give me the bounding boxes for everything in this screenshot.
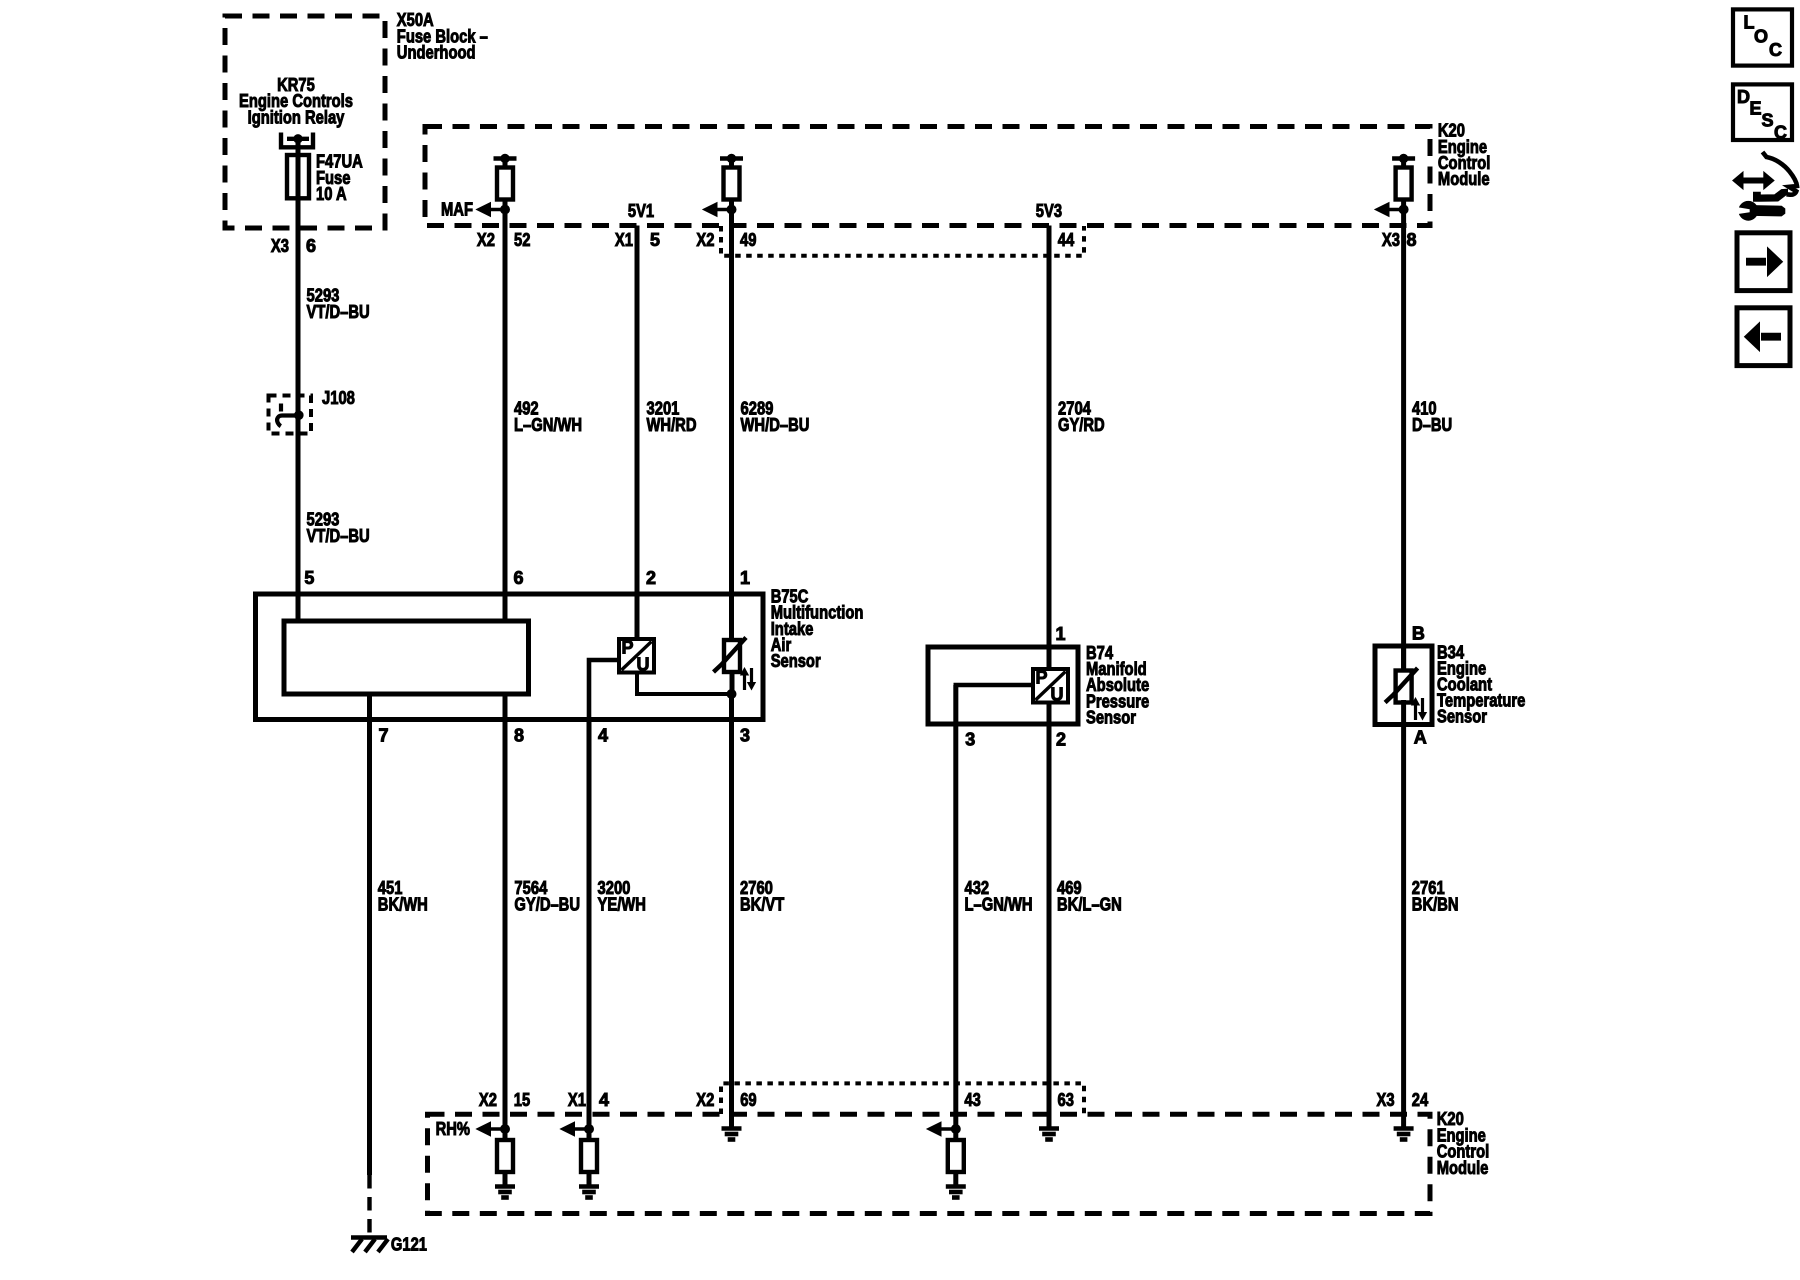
pin label 43 bbox=[964, 1090, 980, 1110]
label wire 492 L-GN/WH bbox=[514, 399, 582, 435]
wire 2761 BK/BN (B34 pin A to pin24) bbox=[1401, 725, 1406, 1127]
pin number 4 (B75C) bbox=[598, 725, 608, 745]
label B75C Multifunction Intake Air Sensor bbox=[771, 587, 864, 671]
svg-text:S: S bbox=[1762, 111, 1774, 131]
svg-text:U: U bbox=[1051, 685, 1064, 705]
svg-text:BK/WH: BK/WH bbox=[378, 894, 428, 914]
svg-text:J108: J108 bbox=[322, 388, 355, 408]
label wire 432 L-GN/WH bbox=[965, 878, 1033, 915]
svg-text:WH/D–BU: WH/D–BU bbox=[741, 415, 810, 435]
pin number 2 (B74) bbox=[1056, 729, 1066, 749]
svg-text:4: 4 bbox=[599, 1090, 609, 1110]
label wire 469 BK/L-GN bbox=[1057, 878, 1122, 915]
wire P/U bottom to pin3 node (B75C) bbox=[637, 673, 732, 695]
thermistor symbol (B75C) bbox=[714, 638, 747, 673]
label wire 2760 BK/VT bbox=[740, 878, 784, 915]
svg-text:D–BU: D–BU bbox=[1412, 415, 1452, 435]
svg-text:44: 44 bbox=[1058, 230, 1074, 250]
svg-text:1: 1 bbox=[740, 568, 750, 588]
ground symbol (pin4 channel) bbox=[579, 1187, 599, 1198]
pin number 8 (B75C) bbox=[514, 725, 524, 745]
label B34 Engine Coolant Temperature Sensor bbox=[1437, 642, 1525, 726]
wire 451 BK/WH (B75C pin7 to G121) bbox=[367, 694, 372, 1175]
resistor pin4 load bbox=[581, 1140, 597, 1172]
sensor B75C outer box bbox=[256, 594, 764, 720]
svg-text:5V1: 5V1 bbox=[628, 201, 654, 221]
icon tool wrench bbox=[1736, 201, 1785, 220]
ECM K20 bottom (dashed box) bbox=[428, 1114, 1431, 1213]
transducer P/U symbol (B75C) bbox=[619, 638, 654, 675]
svg-text:B: B bbox=[1412, 624, 1425, 644]
svg-text:5V3: 5V3 bbox=[1036, 201, 1062, 221]
wire T-bar to resistor (MAF) bbox=[503, 159, 508, 169]
junction dot IAT bbox=[727, 205, 736, 214]
svg-text:X2: X2 bbox=[479, 1090, 497, 1110]
svg-text:8: 8 bbox=[514, 725, 524, 745]
svg-text:2: 2 bbox=[646, 568, 656, 588]
svg-text:U: U bbox=[637, 655, 650, 675]
svg-text:L–GN/WH: L–GN/WH bbox=[965, 894, 1033, 914]
junction dot J108 bbox=[295, 411, 304, 420]
svg-text:A: A bbox=[1414, 728, 1427, 748]
net 5V1 label bbox=[628, 201, 654, 221]
pin label X2 49 bbox=[696, 230, 756, 250]
wire resistor to ground (RH%) bbox=[503, 1172, 508, 1187]
icon box LOC bbox=[1733, 9, 1792, 65]
wire T-bar to resistor (IAT) bbox=[729, 159, 734, 169]
arrow RH% signal bbox=[477, 1122, 506, 1136]
wire 5293 fuse block to B75C pin 5 bbox=[296, 198, 301, 621]
svg-text:3: 3 bbox=[740, 725, 750, 745]
svg-text:69: 69 bbox=[740, 1090, 756, 1110]
resistor pin43 load bbox=[948, 1140, 964, 1172]
svg-text:52: 52 bbox=[514, 230, 530, 250]
label G121 bbox=[391, 1234, 427, 1254]
svg-text:Sensor: Sensor bbox=[1086, 707, 1136, 727]
pull-up sense T-bar (IAT) bbox=[720, 154, 743, 162]
svg-text:X1: X1 bbox=[568, 1090, 586, 1110]
svg-text:Ignition Relay: Ignition Relay bbox=[248, 107, 345, 127]
wire 3201 WH/RD (pin5 to B75C pin2) bbox=[635, 226, 640, 640]
junction dot ECT bbox=[1399, 205, 1408, 214]
wire pin3 to P/U left (B74) bbox=[956, 685, 1033, 723]
junction dot pin3 net (B75C) bbox=[727, 690, 736, 699]
wire 7564 GY/D-BU (B75C pin8 to pin15) bbox=[503, 694, 508, 1129]
ground symbol (pin 24) bbox=[1394, 1129, 1414, 1140]
svg-text:Underhood: Underhood bbox=[397, 43, 476, 63]
svg-text:5: 5 bbox=[304, 568, 314, 588]
connector sub-box (dotted) pins 49-44 bbox=[721, 226, 1084, 256]
icon box forward arrow bbox=[1737, 233, 1790, 291]
pin label 63 bbox=[1058, 1090, 1074, 1110]
icon tool double arrow bbox=[1733, 172, 1774, 189]
svg-text:L–GN/WH: L–GN/WH bbox=[514, 415, 582, 435]
icon forward arrow bbox=[1746, 248, 1783, 277]
svg-text:G121: G121 bbox=[391, 1234, 427, 1254]
icon back arrow bbox=[1745, 323, 1782, 352]
wire 3200 YE/WH (B75C pin4 to pin4) bbox=[587, 719, 592, 1129]
svg-text:RH%: RH% bbox=[436, 1119, 470, 1139]
pin letter A (B34) bbox=[1414, 728, 1427, 748]
svg-text:VT/D–BU: VT/D–BU bbox=[307, 526, 370, 546]
resistor MAF pull-up bbox=[497, 168, 513, 200]
splice J108 clip symbol bbox=[277, 404, 299, 427]
svg-text:C: C bbox=[1769, 40, 1782, 60]
pin number 3 (B74) bbox=[965, 729, 975, 749]
resistor IAT pull-up bbox=[724, 168, 740, 200]
svg-text:1: 1 bbox=[1056, 624, 1066, 644]
svg-text:6: 6 bbox=[306, 236, 316, 256]
svg-text:3: 3 bbox=[965, 729, 975, 749]
svg-text:X3: X3 bbox=[1382, 230, 1400, 250]
label wire 3200 YE/WH bbox=[598, 878, 646, 915]
label wire 410 D-BU bbox=[1412, 399, 1452, 435]
connector label X3 pin 6 (fuse block) bbox=[271, 236, 316, 256]
wire T-bar to resistor (ECT) bbox=[1401, 159, 1406, 169]
pin label X2 15 bbox=[479, 1090, 530, 1110]
fuse block X50A (dashed box) bbox=[225, 16, 385, 228]
wire relay to fuse bbox=[296, 139, 301, 156]
label wire 3201 WH/RD bbox=[647, 399, 697, 435]
sensor B75C inner element box bbox=[284, 621, 529, 694]
wire 2760 BK/VT (B75C pin3 to pin69) bbox=[729, 694, 734, 1127]
ground G121 symbol bbox=[351, 1238, 388, 1253]
wire resistor to ground (pin4) bbox=[587, 1172, 592, 1187]
wire resistor to ground (pin43) bbox=[953, 1172, 958, 1187]
pin letter B (B34) bbox=[1412, 624, 1425, 644]
svg-text:E: E bbox=[1750, 98, 1762, 118]
pin number 1 (B75C) bbox=[740, 568, 750, 588]
svg-text:X2: X2 bbox=[696, 230, 714, 250]
icon box DESC bbox=[1733, 84, 1792, 140]
pin label X2 52 bbox=[477, 230, 531, 250]
wire 469 BK/L-GN (B74 pin2 to pin63) bbox=[1047, 702, 1052, 1127]
sensor B74 box bbox=[928, 647, 1078, 724]
pull-up sense T-bar (MAF) bbox=[494, 154, 517, 162]
ECM K20 top (dashed box) bbox=[425, 127, 1430, 226]
wire resistor to pin 49 bbox=[729, 200, 734, 226]
svg-text:49: 49 bbox=[740, 230, 756, 250]
ground symbol (RH% channel) bbox=[495, 1187, 515, 1198]
connector sub-box (dotted) pins 69-63 bbox=[721, 1083, 1084, 1114]
wire junction to resistor (pin43) bbox=[953, 1129, 958, 1140]
label RH% bbox=[436, 1119, 470, 1139]
svg-text:X3: X3 bbox=[1377, 1090, 1395, 1110]
svg-text:X1: X1 bbox=[615, 230, 633, 250]
svg-text:P: P bbox=[622, 638, 634, 658]
svg-text:WH/RD: WH/RD bbox=[647, 415, 697, 435]
fuse F47UA bbox=[287, 155, 309, 198]
label X50A Fuse Block - Underhood bbox=[397, 10, 488, 62]
ground symbol (pin 63) bbox=[1039, 1129, 1059, 1140]
arrow pin43 signal bbox=[927, 1122, 956, 1136]
sensor B34 box bbox=[1375, 646, 1432, 725]
svg-text:X3: X3 bbox=[271, 236, 289, 256]
svg-text:8: 8 bbox=[1407, 230, 1417, 250]
splice J108 (dashed box) bbox=[269, 396, 312, 434]
svg-text:Module: Module bbox=[1438, 169, 1490, 189]
label wire 5293 VT/D-BU (upper) bbox=[307, 286, 370, 322]
arrow pin4 signal bbox=[561, 1122, 590, 1136]
svg-text:P: P bbox=[1036, 668, 1048, 688]
pin label X1 4 bbox=[568, 1090, 609, 1110]
junction dot pin4 bbox=[585, 1125, 594, 1134]
wire 6289 WH/D-BU (pin49 to B75C pin1) bbox=[729, 226, 734, 641]
label wire 2761 BK/BN bbox=[1412, 878, 1459, 915]
pin number 6 (B75C) bbox=[514, 568, 524, 588]
wire junction to resistor (RH%) bbox=[503, 1129, 508, 1140]
net 5V3 label bbox=[1036, 201, 1062, 221]
icon tool connector outline bbox=[1763, 152, 1798, 195]
svg-text:MAF: MAF bbox=[441, 199, 473, 219]
svg-text:BK/VT: BK/VT bbox=[740, 894, 784, 914]
ground symbol (pin43 channel) bbox=[946, 1187, 966, 1198]
svg-text:YE/WH: YE/WH bbox=[598, 894, 646, 914]
svg-text:GY/D–BU: GY/D–BU bbox=[514, 894, 580, 914]
pin label 44 bbox=[1058, 230, 1074, 250]
svg-text:BK/BN: BK/BN bbox=[1412, 894, 1459, 914]
pin label X1 5 bbox=[615, 230, 660, 250]
label J108 bbox=[322, 388, 355, 408]
label wire 5293 VT/D-BU (lower) bbox=[307, 510, 370, 546]
label K20 Engine Control Module (bottom right) bbox=[1437, 1109, 1490, 1178]
svg-text:10 A: 10 A bbox=[316, 184, 347, 204]
svg-text:43: 43 bbox=[964, 1090, 980, 1110]
svg-text:O: O bbox=[1754, 26, 1768, 46]
pin label X3 24 bbox=[1377, 1090, 1429, 1110]
ground symbol (pin 69) bbox=[722, 1129, 742, 1140]
svg-text:Sensor: Sensor bbox=[1437, 707, 1487, 727]
label wire 451 BK/WH bbox=[378, 878, 428, 915]
junction dot MAF bbox=[501, 205, 510, 214]
label B74 Manifold Absolute Pressure Sensor bbox=[1086, 643, 1149, 727]
svg-text:Sensor: Sensor bbox=[771, 651, 821, 671]
icon tool connector jaw bbox=[1754, 189, 1788, 201]
junction dot pin43 bbox=[951, 1125, 960, 1134]
svg-text:VT/D–BU: VT/D–BU bbox=[307, 302, 370, 322]
svg-text:4: 4 bbox=[598, 725, 608, 745]
wire resistor to pin 8 bbox=[1401, 200, 1406, 226]
relay KR75 contact clip bbox=[281, 133, 313, 148]
svg-text:X2: X2 bbox=[477, 230, 495, 250]
pin number 2 (B75C) bbox=[646, 568, 656, 588]
label KR75 Engine Controls Ignition Relay bbox=[239, 75, 353, 127]
arrow ECT signal bbox=[1375, 203, 1404, 217]
wire junction to resistor (pin4) bbox=[587, 1129, 592, 1140]
icon box back arrow bbox=[1737, 308, 1790, 366]
pin label X3 8 bbox=[1382, 230, 1417, 250]
svg-text:5: 5 bbox=[650, 230, 660, 250]
svg-text:BK/L–GN: BK/L–GN bbox=[1057, 894, 1122, 914]
wire 410 D-BU (pin8 to B34 pin B) bbox=[1401, 226, 1406, 671]
label F47UA Fuse 10 A bbox=[316, 152, 363, 204]
wire resistor to pin 52 bbox=[503, 200, 508, 226]
pull-up sense T-bar (ECT) bbox=[1392, 154, 1415, 162]
pin number 5 (B75C) bbox=[304, 568, 314, 588]
svg-text:L: L bbox=[1744, 12, 1755, 32]
wire 432 L-GN/WH (B74 pin3 to pin43) bbox=[953, 685, 958, 1129]
arrow MAF signal bbox=[477, 203, 506, 217]
resistor ECT pull-up bbox=[1396, 168, 1412, 200]
svg-text:2: 2 bbox=[1056, 729, 1066, 749]
svg-text:X2: X2 bbox=[696, 1090, 714, 1110]
svg-text:GY/RD: GY/RD bbox=[1058, 415, 1105, 435]
wire thermistor to junction (B75C) bbox=[730, 672, 735, 694]
label MAF bbox=[441, 199, 473, 219]
svg-text:7: 7 bbox=[379, 725, 389, 745]
svg-text:24: 24 bbox=[1412, 1090, 1428, 1110]
label wire 2704 GY/RD bbox=[1058, 399, 1105, 435]
thermistor symbol (B34) bbox=[1385, 668, 1418, 703]
wire 492 L-GN/WH (pin52 to B75C pin6) bbox=[503, 226, 508, 622]
svg-text:D: D bbox=[1737, 87, 1750, 107]
icon letters LOC bbox=[1744, 12, 1783, 60]
wire pin4 to P/U left (B75C) bbox=[589, 660, 619, 719]
svg-text:63: 63 bbox=[1058, 1090, 1074, 1110]
pin label X2 69 bbox=[696, 1090, 756, 1110]
junction dot RH% bbox=[501, 1125, 510, 1134]
icon letters DESC bbox=[1737, 87, 1787, 143]
wire through B34 bbox=[1401, 646, 1406, 725]
wire 451 dashed segment to G121 bbox=[367, 1175, 371, 1236]
wire 2704 GY/RD (pin44 to B74 pin1) bbox=[1047, 226, 1052, 670]
thermistor arrows (B34) bbox=[1412, 698, 1427, 720]
svg-text:15: 15 bbox=[514, 1090, 530, 1110]
label wire 6289 WH/D-BU bbox=[741, 399, 810, 435]
resistor RH% load bbox=[497, 1140, 513, 1172]
pin number 1 (B74) bbox=[1056, 624, 1066, 644]
label K20 Engine Control Module (top right) bbox=[1438, 121, 1491, 190]
thermistor arrows (B75C) bbox=[741, 668, 756, 690]
pin number 3 (B75C) bbox=[740, 725, 750, 745]
svg-text:6: 6 bbox=[514, 568, 524, 588]
svg-text:C: C bbox=[1774, 123, 1787, 143]
transducer P/U symbol (B74) bbox=[1033, 668, 1068, 705]
svg-text:Module: Module bbox=[1437, 1158, 1489, 1178]
pin number 7 (B75C) bbox=[379, 725, 389, 745]
arrow IAT signal bbox=[703, 203, 732, 217]
label wire 7564 GY/D-BU bbox=[514, 878, 580, 915]
